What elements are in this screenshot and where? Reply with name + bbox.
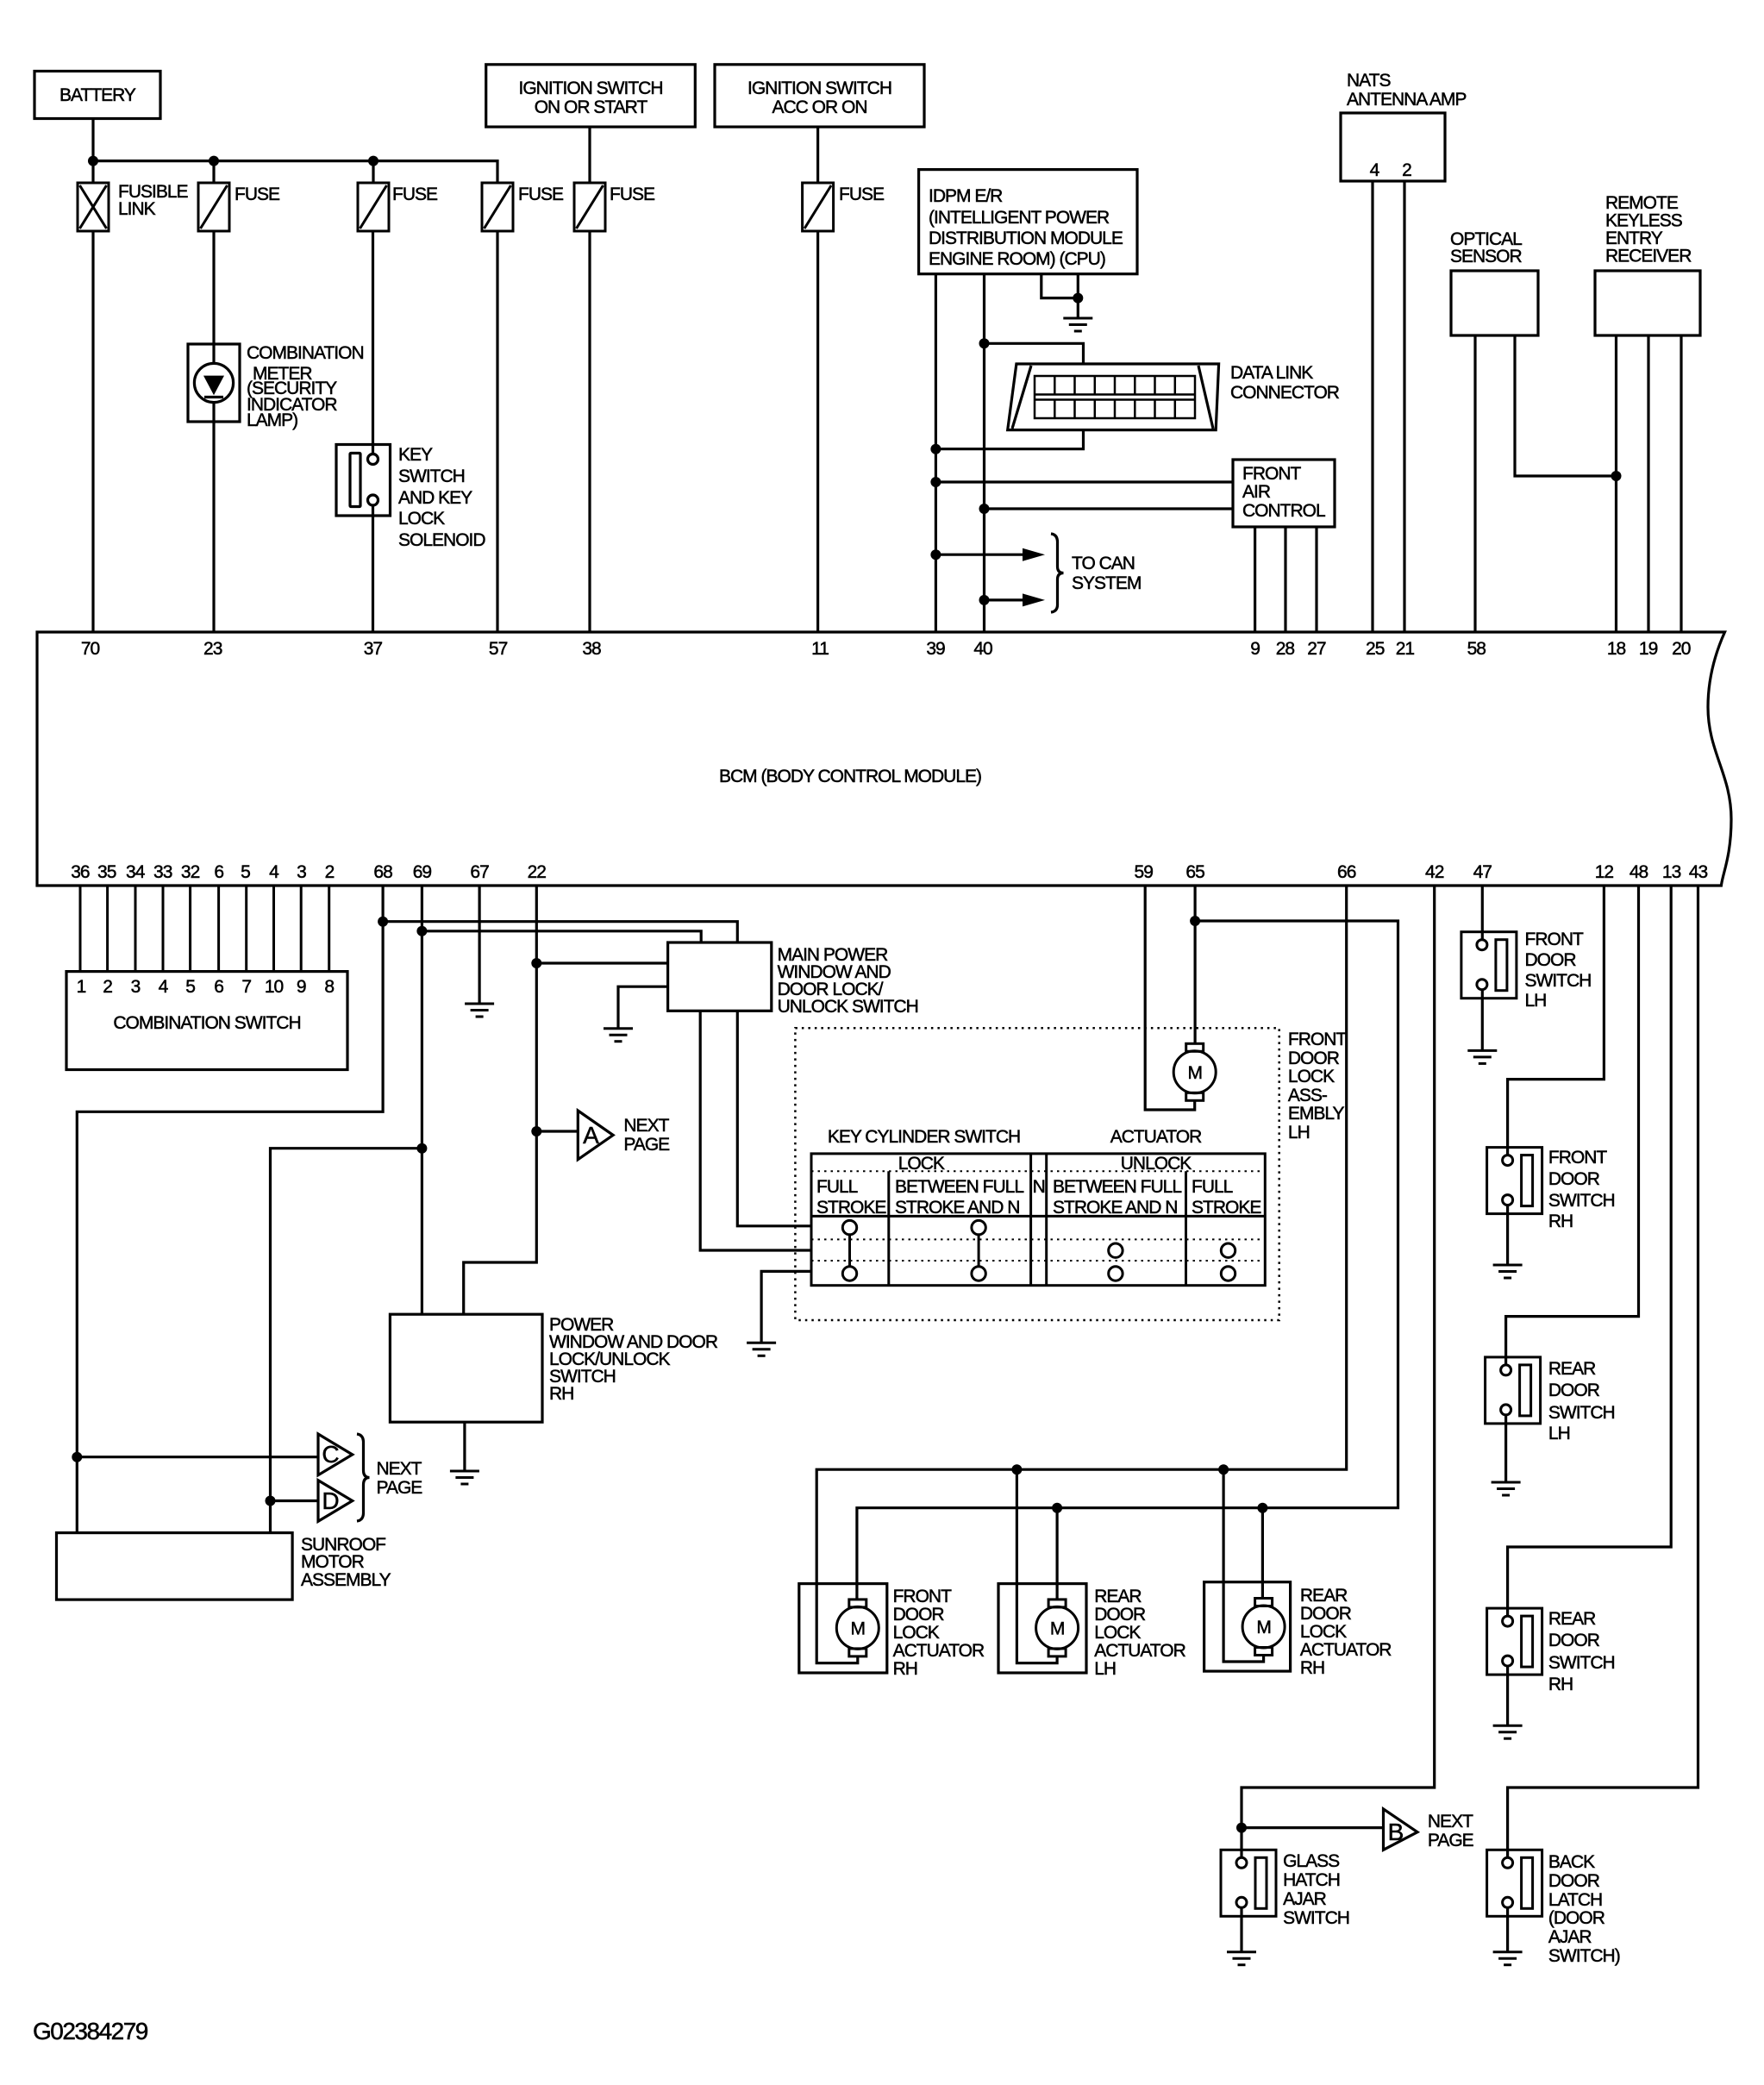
svg-text:BATTERY: BATTERY (59, 85, 136, 105)
svg-text:LH: LH (1525, 991, 1547, 1011)
svg-text:FUSE: FUSE (610, 185, 655, 204)
svg-text:SWITCH: SWITCH (398, 466, 465, 486)
svg-text:LOCK: LOCK (898, 1154, 945, 1174)
svg-text:65: 65 (1185, 862, 1204, 882)
svg-text:DOOR: DOOR (1288, 1049, 1340, 1068)
svg-text:IGNITION SWITCH: IGNITION SWITCH (748, 78, 891, 98)
svg-text:LOCK: LOCK (1288, 1067, 1335, 1086)
svg-text:NATS: NATS (1347, 71, 1391, 91)
svg-text:SYSTEM: SYSTEM (1072, 573, 1141, 593)
svg-text:11: 11 (811, 639, 829, 659)
svg-text:2: 2 (325, 862, 335, 882)
svg-text:12: 12 (1595, 862, 1614, 882)
svg-text:RECEIVER: RECEIVER (1605, 247, 1692, 266)
svg-text:TO CAN: TO CAN (1072, 554, 1135, 573)
svg-text:LOCK: LOCK (893, 1623, 940, 1643)
svg-text:57: 57 (489, 639, 508, 659)
svg-text:M: M (1050, 1619, 1065, 1639)
svg-text:N: N (1033, 1177, 1045, 1197)
svg-text:ASSEMBLY: ASSEMBLY (301, 1570, 391, 1590)
svg-text:PAGE: PAGE (1428, 1831, 1474, 1850)
svg-text:FUSE: FUSE (518, 185, 564, 204)
svg-text:6: 6 (214, 977, 223, 997)
svg-text:IGNITION SWITCH: IGNITION SWITCH (519, 78, 663, 98)
svg-text:REAR: REAR (1300, 1586, 1348, 1606)
svg-text:ACTUATOR: ACTUATOR (893, 1641, 985, 1661)
svg-text:SWITCH: SWITCH (1548, 1403, 1615, 1423)
svg-text:47: 47 (1473, 862, 1492, 882)
svg-text:NEXT: NEXT (1428, 1812, 1473, 1831)
svg-text:DOOR: DOOR (1300, 1604, 1352, 1624)
svg-text:35: 35 (97, 862, 116, 882)
svg-text:DOOR: DOOR (1094, 1605, 1146, 1625)
svg-text:LATCH: LATCH (1548, 1890, 1602, 1910)
svg-text:UNLOCK: UNLOCK (1121, 1154, 1192, 1174)
svg-text:CONTROL: CONTROL (1242, 501, 1325, 521)
svg-text:2: 2 (103, 977, 112, 997)
svg-text:LOCK: LOCK (1094, 1623, 1141, 1643)
svg-text:4: 4 (159, 977, 169, 997)
svg-text:A: A (583, 1122, 599, 1149)
svg-text:B: B (1388, 1819, 1404, 1845)
svg-text:68: 68 (373, 862, 392, 882)
svg-text:DOOR: DOOR (893, 1605, 945, 1625)
svg-text:ANTENNA AMP: ANTENNA AMP (1347, 90, 1466, 110)
svg-text:6: 6 (214, 862, 223, 882)
svg-text:DOOR: DOOR (1548, 1631, 1600, 1650)
svg-text:FUSE: FUSE (235, 185, 280, 204)
svg-text:BCM (BODY CONTROL MODULE): BCM (BODY CONTROL MODULE) (719, 767, 981, 786)
svg-text:37: 37 (364, 639, 383, 659)
svg-text:ACTUATOR: ACTUATOR (1110, 1127, 1202, 1147)
svg-text:25: 25 (1366, 639, 1385, 659)
svg-text:BACK: BACK (1548, 1852, 1595, 1872)
svg-text:AJAR: AJAR (1283, 1889, 1327, 1909)
svg-text:MOTOR: MOTOR (301, 1552, 365, 1572)
svg-text:ENGINE ROOM) (CPU): ENGINE ROOM) (CPU) (929, 249, 1105, 269)
svg-text:C: C (322, 1441, 339, 1468)
svg-text:RH: RH (893, 1659, 917, 1679)
svg-text:DOOR: DOOR (1525, 950, 1577, 970)
svg-text:ACC OR ON: ACC OR ON (772, 97, 866, 117)
svg-text:REAR: REAR (1548, 1609, 1596, 1629)
svg-text:ACTUATOR: ACTUATOR (1300, 1640, 1392, 1660)
svg-text:BETWEEN FULL: BETWEEN FULL (1053, 1177, 1181, 1197)
svg-text:FRONT: FRONT (893, 1587, 952, 1606)
svg-text:43: 43 (1689, 862, 1708, 882)
svg-text:LH: LH (1094, 1659, 1116, 1679)
svg-text:PAGE: PAGE (377, 1478, 423, 1498)
svg-text:9: 9 (297, 977, 306, 997)
svg-text:M: M (1187, 1063, 1202, 1083)
svg-text:21: 21 (1396, 639, 1415, 659)
svg-text:1: 1 (77, 977, 86, 997)
svg-text:22: 22 (528, 862, 547, 882)
svg-text:5: 5 (241, 862, 250, 882)
svg-text:59: 59 (1135, 862, 1154, 882)
svg-text:3: 3 (297, 862, 306, 882)
svg-text:RH: RH (1300, 1658, 1324, 1678)
svg-text:FUSE: FUSE (392, 185, 438, 204)
svg-text:ASS-: ASS- (1288, 1086, 1328, 1105)
svg-text:HATCH: HATCH (1283, 1870, 1340, 1890)
svg-text:DOOR: DOOR (1548, 1871, 1600, 1891)
svg-text:DISTRIBUTION MODULE: DISTRIBUTION MODULE (929, 229, 1123, 248)
svg-text:20: 20 (1672, 639, 1691, 659)
svg-text:RH: RH (1548, 1675, 1573, 1694)
svg-text:KEY: KEY (398, 445, 433, 465)
svg-text:DATA LINK: DATA LINK (1230, 363, 1313, 383)
svg-text:27: 27 (1307, 639, 1326, 659)
svg-text:(DOOR: (DOOR (1548, 1908, 1605, 1928)
svg-text:ON OR START: ON OR START (535, 97, 648, 117)
svg-text:33: 33 (153, 862, 172, 882)
svg-text:RH: RH (1548, 1212, 1573, 1231)
svg-text:NEXT: NEXT (377, 1459, 422, 1479)
svg-text:SWITCH: SWITCH (1548, 1653, 1615, 1673)
svg-text:66: 66 (1337, 862, 1356, 882)
svg-text:PAGE: PAGE (623, 1135, 670, 1155)
svg-text:SENSOR: SENSOR (1450, 247, 1523, 266)
svg-text:7: 7 (241, 977, 251, 997)
svg-text:IDPM E/R: IDPM E/R (929, 186, 1003, 206)
svg-text:SOLENOID: SOLENOID (398, 530, 485, 550)
svg-text:SWITCH: SWITCH (1283, 1908, 1349, 1928)
svg-text:AJAR: AJAR (1548, 1927, 1592, 1947)
svg-text:COMBINATION: COMBINATION (247, 343, 364, 363)
svg-text:34: 34 (126, 862, 146, 882)
svg-text:48: 48 (1630, 862, 1648, 882)
svg-text:LH: LH (1288, 1123, 1310, 1143)
svg-text:8: 8 (324, 977, 334, 997)
svg-text:67: 67 (470, 862, 489, 882)
svg-text:40: 40 (973, 639, 992, 659)
svg-text:69: 69 (413, 862, 432, 882)
svg-text:CONNECTOR: CONNECTOR (1230, 383, 1340, 403)
svg-text:AND KEY: AND KEY (398, 488, 472, 508)
svg-text:REAR: REAR (1548, 1359, 1596, 1379)
svg-text:39: 39 (926, 639, 945, 659)
svg-text:FRONT: FRONT (1242, 464, 1301, 484)
svg-text:RH: RH (549, 1384, 573, 1404)
svg-text:M: M (851, 1619, 866, 1639)
svg-text:10: 10 (265, 977, 284, 997)
svg-text:BETWEEN FULL: BETWEEN FULL (895, 1177, 1023, 1197)
svg-text:FUSE: FUSE (839, 185, 885, 204)
svg-text:19: 19 (1639, 639, 1658, 659)
svg-text:EMBLY: EMBLY (1288, 1104, 1345, 1124)
svg-text:3: 3 (131, 977, 141, 997)
svg-text:NEXT: NEXT (623, 1116, 669, 1136)
svg-text:AIR: AIR (1242, 482, 1271, 502)
svg-text:42: 42 (1425, 862, 1444, 882)
svg-text:32: 32 (181, 862, 200, 882)
svg-text:2: 2 (1402, 160, 1411, 180)
svg-text:COMBINATION SWITCH: COMBINATION SWITCH (113, 1013, 300, 1033)
svg-text:9: 9 (1250, 639, 1260, 659)
svg-text:STROKE AND N: STROKE AND N (895, 1198, 1019, 1218)
svg-text:LAMP): LAMP) (247, 410, 297, 430)
svg-text:LOCK: LOCK (398, 509, 445, 529)
svg-text:LOCK: LOCK (1300, 1622, 1347, 1642)
svg-text:13: 13 (1662, 862, 1681, 882)
svg-text:STROKE: STROKE (1192, 1198, 1261, 1218)
svg-text:4: 4 (1370, 160, 1380, 180)
svg-text:58: 58 (1467, 639, 1486, 659)
svg-text:70: 70 (81, 639, 100, 659)
svg-text:SWITCH: SWITCH (1525, 971, 1592, 991)
svg-text:FRONT: FRONT (1288, 1030, 1347, 1049)
svg-text:M: M (1256, 1618, 1271, 1637)
svg-text:LH: LH (1548, 1424, 1570, 1443)
svg-text:FRONT: FRONT (1548, 1148, 1607, 1168)
svg-text:4: 4 (269, 862, 279, 882)
svg-text:STROKE: STROKE (816, 1198, 886, 1218)
svg-text:38: 38 (582, 639, 601, 659)
svg-text:(INTELLIGENT POWER: (INTELLIGENT POWER (929, 208, 1110, 228)
svg-text:D: D (322, 1487, 338, 1514)
svg-text:SWITCH: SWITCH (1548, 1191, 1615, 1211)
svg-text:LINK: LINK (118, 199, 156, 219)
svg-text:28: 28 (1276, 639, 1295, 659)
svg-text:STROKE AND N: STROKE AND N (1053, 1198, 1177, 1218)
svg-text:GLASS: GLASS (1283, 1851, 1340, 1871)
svg-text:FULL: FULL (816, 1177, 858, 1197)
svg-text:G02384279: G02384279 (33, 2018, 148, 2044)
svg-text:KEY CYLINDER SWITCH: KEY CYLINDER SWITCH (828, 1127, 1020, 1147)
svg-text:23: 23 (203, 639, 222, 659)
svg-text:REAR: REAR (1094, 1587, 1142, 1606)
svg-text:36: 36 (71, 862, 90, 882)
svg-text:SWITCH): SWITCH) (1548, 1946, 1620, 1966)
svg-text:DOOR: DOOR (1548, 1169, 1600, 1189)
svg-text:ACTUATOR: ACTUATOR (1094, 1641, 1185, 1661)
svg-text:DOOR: DOOR (1548, 1381, 1600, 1400)
svg-text:UNLOCK SWITCH: UNLOCK SWITCH (778, 997, 918, 1017)
svg-text:5: 5 (185, 977, 195, 997)
svg-text:18: 18 (1607, 639, 1626, 659)
svg-text:FULL: FULL (1192, 1177, 1233, 1197)
svg-text:FRONT: FRONT (1525, 930, 1584, 949)
